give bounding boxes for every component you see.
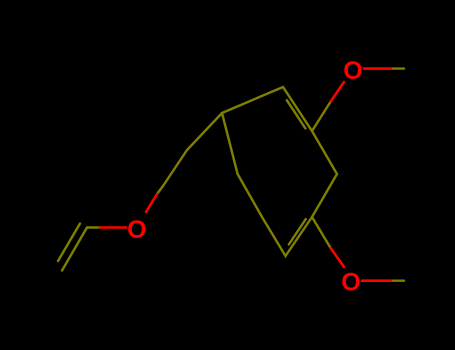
svg-text:O: O [127,216,146,244]
svg-text:O: O [341,269,360,297]
svg-text:O: O [343,57,362,85]
